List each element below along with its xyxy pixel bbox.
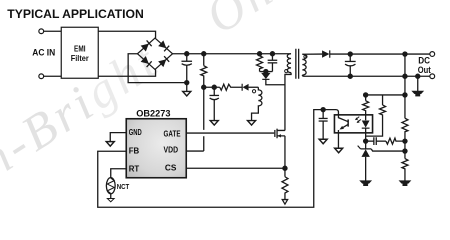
secondary polarity dot xyxy=(304,55,307,58)
opto LED series resistor R4 xyxy=(363,95,369,120)
aux winding xyxy=(252,87,262,120)
bulk capacitor xyxy=(185,52,189,56)
VDD pin wire xyxy=(186,150,204,152)
output diode D7 xyxy=(322,50,329,57)
optocoupler U2 box xyxy=(334,115,372,133)
bridge diode D2 (top-right edge) xyxy=(158,40,169,51)
AC terminal top xyxy=(39,29,44,34)
bias resistor R5 xyxy=(366,95,386,136)
opto light arrows xyxy=(356,117,361,123)
compensation capacitor xyxy=(366,140,374,142)
aux winding polarity dot xyxy=(252,90,255,93)
transformer core xyxy=(296,49,299,79)
GND pin wire xyxy=(110,133,126,142)
wire EMI to bridge top xyxy=(98,31,155,38)
output earth ground xyxy=(413,91,423,95)
aux resistor R2 xyxy=(220,84,242,90)
RT pin wire xyxy=(111,169,127,178)
EMI filter box xyxy=(61,27,98,78)
svg-text:AC IN: AC IN xyxy=(32,47,55,57)
svg-text:RT: RT xyxy=(129,164,140,173)
startup resistor R1 xyxy=(202,52,206,56)
bridge diode D4 (bottom-right edge) xyxy=(158,56,169,67)
MOSFET source wire xyxy=(284,136,286,177)
DC out terminals xyxy=(430,52,435,57)
svg-text:GND: GND xyxy=(129,128,142,137)
primary bottom lead xyxy=(285,73,291,131)
ground under FB cap xyxy=(319,139,327,144)
TL431 U3 xyxy=(365,141,367,149)
FB wire from opto collector xyxy=(98,110,339,208)
bridge diode D3 (left-bottom edge) xyxy=(141,56,152,67)
MOSFET Q1 xyxy=(274,130,276,137)
FB filter capacitor xyxy=(321,108,325,112)
GATE pin wire xyxy=(186,132,274,134)
wire AC bottom to EMI xyxy=(44,75,62,77)
wire EMI to bridge bottom xyxy=(98,69,155,76)
right sense vertical wire xyxy=(403,52,407,56)
ground under aux winding xyxy=(248,121,256,126)
AC IN label xyxy=(32,47,55,57)
svg-text:Out: Out xyxy=(418,65,432,76)
svg-text:CS: CS xyxy=(165,163,177,172)
secondary bottom lead wire xyxy=(302,75,430,76)
bridge diode D1 (left-top edge) xyxy=(141,40,152,51)
earth under TL431 xyxy=(361,181,371,185)
compensation node xyxy=(364,139,368,143)
NCT thermistor xyxy=(106,178,115,194)
wire AC top to EMI xyxy=(44,30,62,32)
svg-text:GATE: GATE xyxy=(164,130,182,139)
svg-text:FB: FB xyxy=(129,146,140,155)
wire bridge minus return xyxy=(128,54,187,83)
feed wire to opto bias xyxy=(366,94,405,96)
opto emitter ground arrow xyxy=(335,148,343,153)
aux supply wire xyxy=(204,86,220,88)
upper divider resistor R7 xyxy=(402,118,408,141)
secondary top lead wire xyxy=(302,53,322,55)
ground under bulk cap xyxy=(183,91,191,96)
svg-text:TYPICAL APPLICATION: TYPICAL APPLICATION xyxy=(7,7,144,21)
primary polarity dot xyxy=(285,70,288,73)
CS pin wire xyxy=(186,167,285,169)
sense resistor R9 xyxy=(282,177,288,200)
output ground tap xyxy=(416,74,420,78)
output capacitor xyxy=(348,52,352,56)
snubber join wire xyxy=(260,71,273,73)
aux diode D5 xyxy=(241,84,243,91)
ground arrow at GND pin xyxy=(106,142,114,147)
watermark xyxy=(0,0,284,188)
lower divider resistor R8 xyxy=(402,159,408,182)
snubber capacitor C3 xyxy=(270,52,274,56)
snubber resistor R3 xyxy=(258,52,262,56)
svg-text:NCT: NCT xyxy=(117,182,130,191)
svg-text:On: On xyxy=(196,0,284,44)
AC terminal bottom xyxy=(39,74,44,79)
svg-text:Filter: Filter xyxy=(71,54,90,63)
opto phototransistor xyxy=(338,115,347,148)
bridge rectifier diamond xyxy=(137,38,172,69)
transformer primary winding xyxy=(287,54,291,73)
earth under divider xyxy=(400,181,410,185)
ref node dot xyxy=(403,149,407,153)
title TYPICAL APPLICATION xyxy=(7,7,144,21)
ground under VDD cap xyxy=(210,121,218,126)
compensation resistor R6 xyxy=(386,138,405,144)
opto LED xyxy=(362,120,370,127)
vdd vertical wire (gap at GATE crossing) xyxy=(203,87,205,151)
clamp diode D6 xyxy=(265,72,267,73)
svg-text:VDD: VDD xyxy=(164,145,179,154)
ground arrow under sense resistor xyxy=(282,200,287,205)
IC U1 OB2273 box xyxy=(0,0,1,1)
transformer secondary winding xyxy=(302,54,306,75)
VDD capacitor xyxy=(213,87,215,95)
svg-text:OB2273: OB2273 xyxy=(136,108,170,118)
wire main HV bus xyxy=(173,53,291,55)
svg-text:EMI: EMI xyxy=(74,44,86,53)
